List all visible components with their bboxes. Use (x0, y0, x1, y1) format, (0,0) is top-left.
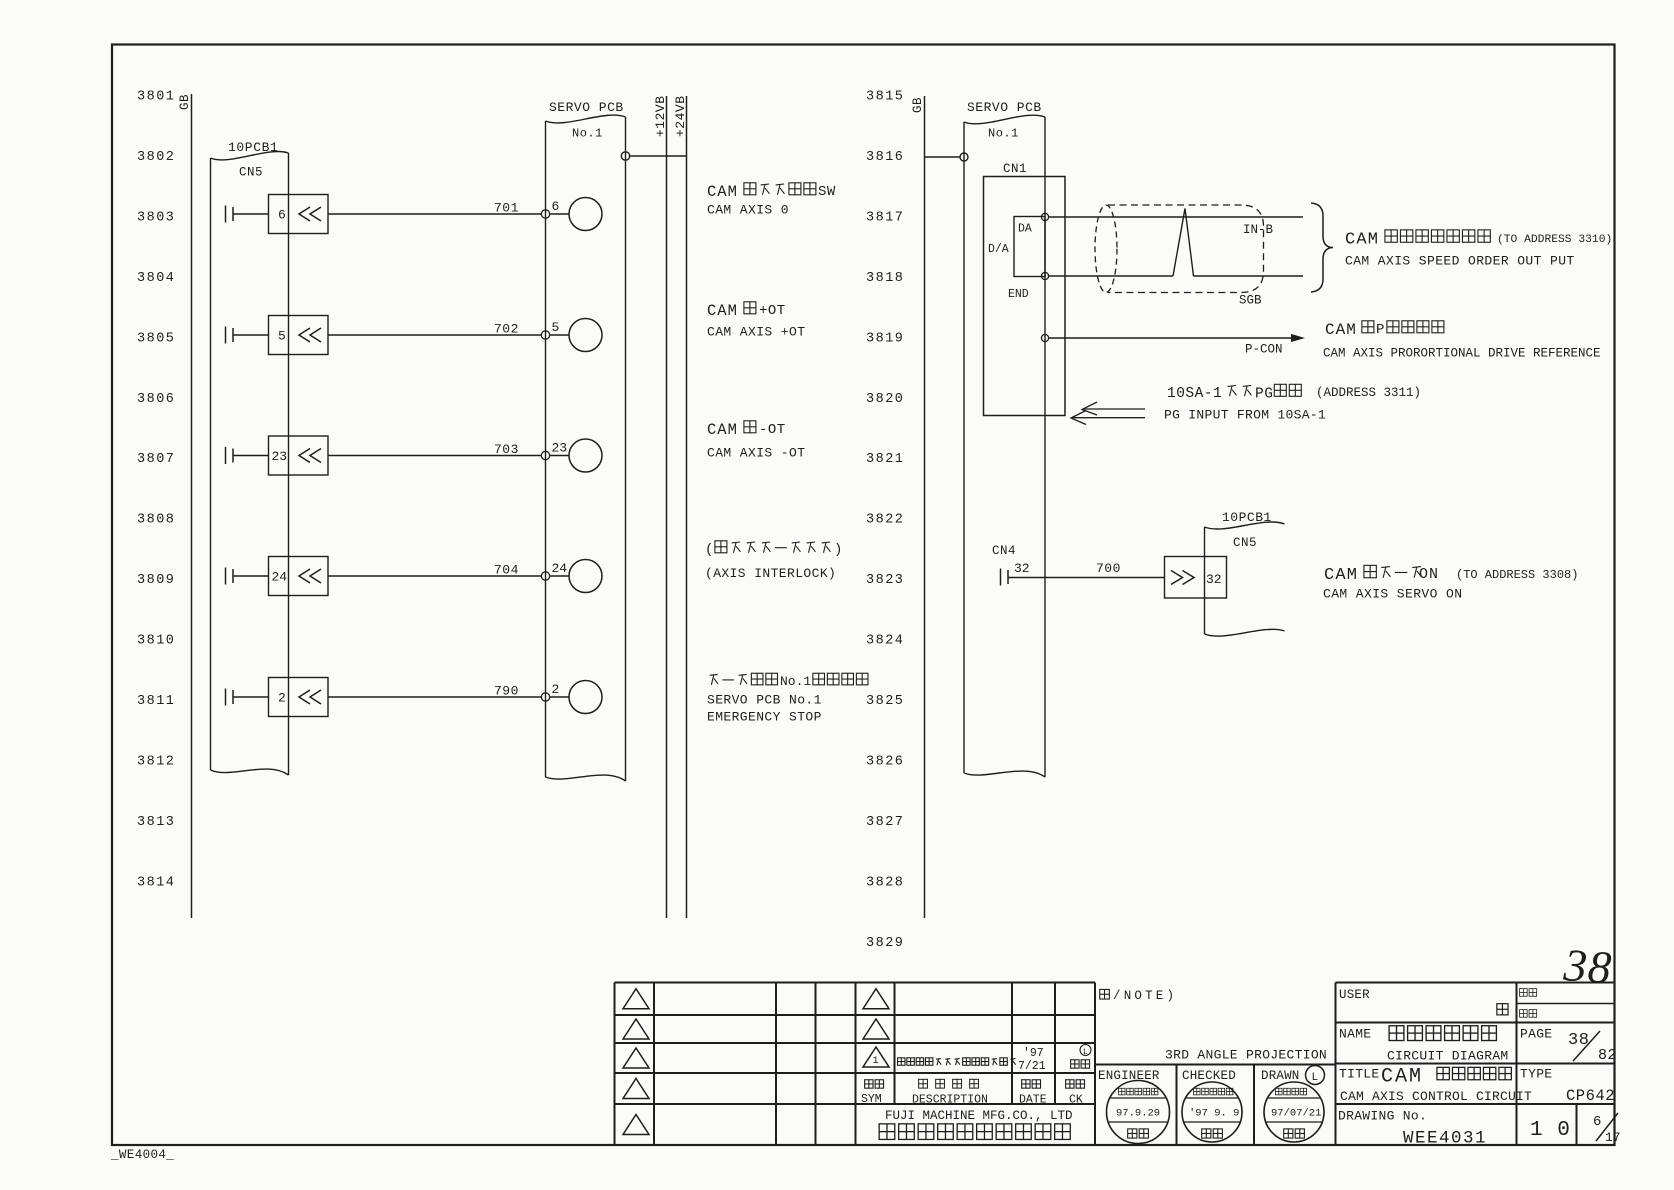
svg-text:3805: 3805 (137, 331, 175, 346)
wire IN-B (speed order +) (1049, 216, 1303, 218)
svg-text:CAM AXIS +OT: CAM AXIS +OT (707, 325, 805, 340)
svg-text:3807: 3807 (137, 452, 175, 467)
svg-text:CN4: CN4 (992, 544, 1016, 558)
svg-text:DA: DA (1018, 223, 1032, 236)
svg-text:3803: 3803 (137, 210, 175, 225)
svg-text:GB: GB (178, 94, 192, 110)
svg-text:L: L (1083, 1048, 1088, 1057)
svg-text:3815: 3815 (866, 90, 904, 105)
company name latin (885, 1109, 1073, 1123)
svg-text:3822: 3822 (866, 513, 904, 528)
wire number label 790 (494, 684, 519, 699)
seiban label (JP) (1520, 1010, 1537, 1018)
revision triangle L4 (623, 1079, 649, 1099)
node: SERVO PCB GB tap (960, 153, 968, 161)
connector CN1 box (984, 177, 1066, 416)
annotation: PG INPUT FROM 10SA-1 (1164, 408, 1326, 423)
annotation: CAM axis -OT (JP) (707, 421, 786, 439)
svg-text:23: 23 (272, 449, 288, 464)
wire P-CON with arrow (1049, 335, 1303, 342)
net label 3803 (137, 210, 175, 225)
net label 3814 (137, 875, 175, 890)
annotation: PG input from 10SA-1 (JP) (1167, 384, 1421, 402)
SERVO PCB label (right) (967, 100, 1042, 115)
wire number label 703 (494, 442, 519, 457)
svg-text:TYPE: TYPE (1520, 1067, 1552, 1082)
svg-text:3804: 3804 (137, 271, 175, 286)
svg-text:-OT: -OT (759, 422, 786, 438)
annotation: CAM AXIS -OT (707, 446, 805, 461)
net label 3805 (137, 331, 175, 346)
svg-text:No.1: No.1 (572, 127, 603, 141)
svg-text:97.9.29: 97.9.29 (1116, 1108, 1160, 1120)
wire 701 (328, 213, 541, 215)
title table gridlines (1336, 983, 1616, 1146)
header DESCRIPTION (912, 1079, 988, 1106)
svg-text:CN5: CN5 (239, 166, 263, 180)
svg-text:704: 704 (494, 563, 519, 578)
net label 3811 (137, 694, 175, 709)
contact pins CN5-23 (226, 447, 234, 464)
CHECKED stamp (1182, 1082, 1242, 1142)
svg-text:NAME: NAME (1339, 1027, 1371, 1042)
wire node to lamp 23 (550, 455, 569, 457)
arrow chevrons (signal into 10PCB1) row 700 (1171, 571, 1194, 585)
net label 3816 (866, 150, 904, 165)
3RD ANGLE PROJECTION label (1165, 1048, 1327, 1063)
svg-text:CP642: CP642 (1566, 1087, 1615, 1105)
annotation: CAM axis servo ON (JP) (1324, 565, 1578, 585)
pin box 23 (10PCB1) (269, 436, 329, 475)
svg-text:3824: 3824 (866, 634, 904, 649)
connector 10PCB1 CN5 column (left) (211, 151, 289, 775)
svg-text:790: 790 (494, 684, 519, 699)
svg-text:'97 9. 9: '97 9. 9 (1189, 1108, 1239, 1120)
svg-text:CAM: CAM (707, 302, 738, 320)
node junction 701 at SERVO PCB (541, 210, 549, 218)
wire node to lamp 6 (550, 213, 569, 215)
svg-text:DRAWN: DRAWN (1261, 1069, 1300, 1083)
net label 3815 (866, 90, 904, 105)
wire 3816 GB to SERVO PCB (925, 156, 961, 158)
svg-text:ON: ON (1419, 566, 1439, 583)
SERVO PCB No.1 label (left) (572, 127, 603, 141)
svg-text:702: 702 (494, 322, 519, 337)
indicator circle pin 24 (569, 560, 602, 593)
svg-text:+OT: +OT (759, 303, 786, 319)
net label 3802 (137, 150, 175, 165)
contact pins CN4-32 (1001, 569, 1009, 586)
revision triangle R1 (863, 989, 889, 1009)
net label 3828 (866, 875, 904, 890)
svg-text:P-CON: P-CON (1245, 343, 1283, 357)
SERVO PCB label (left) (549, 100, 624, 115)
net label 3812 (137, 754, 175, 769)
pin label END (1008, 288, 1029, 301)
ENGINEER stamp (1107, 1081, 1170, 1144)
svg-text:EMERGENCY STOP: EMERGENCY STOP (707, 710, 822, 725)
net label 3823 (866, 573, 904, 588)
handwritten page number 38 (1561, 939, 1613, 993)
wire node to lamp 5 (550, 334, 569, 336)
svg-text:3813: 3813 (137, 815, 175, 830)
pin number 6 label (278, 208, 286, 223)
svg-text:6: 6 (552, 199, 560, 214)
net label 3807 (137, 452, 175, 467)
power rail label +24VB (673, 95, 688, 137)
TITLE: CAM axis control circuit (JP) (1381, 1066, 1511, 1089)
SERVO PCB No.1 column (right) (964, 115, 1045, 777)
ENGINEER label (1098, 1069, 1160, 1083)
CHECKED label (1182, 1069, 1236, 1083)
svg-text:CAM AXIS SPEED ORDER OUT PUT: CAM AXIS SPEED ORDER OUT PUT (1345, 254, 1575, 269)
revision 1 description (JP) (898, 1058, 1016, 1065)
wire 702 (328, 334, 541, 336)
PAGE label (1520, 1027, 1552, 1042)
revision table (left) (615, 983, 856, 1146)
svg-text:1: 1 (873, 1056, 879, 1067)
D/A converter label (988, 243, 1009, 256)
svg-text:6: 6 (1593, 1114, 1601, 1130)
annotation: CAM axis P drive (JP) (1325, 321, 1444, 339)
NAME: CIRCUIT DIAGRAM (1387, 1049, 1509, 1064)
TITLE label (1339, 1067, 1380, 1082)
annotation: CAM AXIS 0 (707, 203, 789, 218)
revision 1 date (1018, 1047, 1046, 1073)
pin number 32 label (10PCB1) (1206, 572, 1222, 587)
pin number 2 label (SERVO PCB) (552, 682, 560, 697)
revision triangle R2 (863, 1019, 889, 1039)
node junction 702 at SERVO PCB (541, 331, 549, 339)
svg-text:CAM AXIS SERVO ON: CAM AXIS SERVO ON (1323, 587, 1462, 602)
signal label P-CON (1245, 343, 1283, 357)
svg-text:3819: 3819 (866, 331, 904, 346)
NAME: circuit diagram (JP) (1389, 1026, 1496, 1041)
sheet number 10 (1530, 1119, 1571, 1142)
svg-text:82: 82 (1598, 1047, 1617, 1064)
svg-text:5: 5 (552, 320, 560, 335)
header CK (1066, 1080, 1085, 1107)
svg-text:CAM: CAM (1345, 231, 1379, 250)
svg-text:SERVO PCB No.1: SERVO PCB No.1 (707, 693, 822, 708)
svg-text:3809: 3809 (137, 573, 175, 588)
connector 10PCB1 label (left) (228, 140, 278, 155)
svg-text:24: 24 (552, 561, 568, 576)
annotation: CAM AXIS SPEED ORDER OUT PUT (1345, 254, 1575, 269)
net label 3829 (866, 936, 904, 951)
net label 3808 (137, 513, 175, 528)
svg-text:32: 32 (1206, 572, 1222, 587)
bunban label (JP) (1520, 989, 1537, 997)
net label 3822 (866, 513, 904, 528)
pin DA (CN1) (1041, 213, 1048, 220)
svg-text:(TO ADDRESS 3310): (TO ADDRESS 3310) (1497, 234, 1612, 246)
pin box 5 (10PCB1) (269, 316, 329, 355)
svg-text:P: P (1376, 322, 1384, 338)
power rail label +12VB (653, 95, 668, 137)
pin number 23 label (SERVO PCB) (552, 441, 568, 456)
pin box 32 (10PCB1 CN5) (1165, 557, 1227, 599)
DRAWN label (1261, 1069, 1300, 1083)
wire number label 700 (1096, 561, 1121, 576)
wire 704 (328, 575, 541, 577)
svg-text:7/21: 7/21 (1018, 1060, 1046, 1073)
svg-text:3RD ANGLE PROJECTION: 3RD ANGLE PROJECTION (1165, 1048, 1327, 1063)
connector 10PCB1 label (right) (1222, 510, 1272, 525)
revision triangle L1 (623, 989, 649, 1009)
svg-text:PG INPUT FROM 10SA-1: PG INPUT FROM 10SA-1 (1164, 408, 1326, 423)
pin number 23 label (272, 449, 288, 464)
svg-text:_WE4004_: _WE4004_ (110, 1148, 174, 1162)
wire CN5-2 to pin box (233, 696, 269, 698)
svg-text:SERVO PCB: SERVO PCB (549, 100, 624, 115)
svg-text:3801: 3801 (137, 90, 175, 105)
shielded cable symbol (dashed) (1095, 205, 1264, 293)
connector CN1 label (1003, 162, 1027, 176)
net label 3825 (866, 694, 904, 709)
svg-text:ENGINEER: ENGINEER (1098, 1069, 1160, 1083)
pin number 5 label (278, 329, 286, 344)
net label 3801 (137, 90, 175, 105)
svg-text:700: 700 (1096, 561, 1121, 576)
PAGE 38/82 (1568, 1031, 1617, 1064)
svg-text:(TO ADDRESS 3308): (TO ADDRESS 3308) (1456, 568, 1578, 582)
indicator circle pin 5 (569, 319, 602, 352)
svg-text:IN-B: IN-B (1243, 223, 1274, 237)
svg-text:CAM: CAM (707, 183, 738, 201)
wire 700 (1008, 577, 1165, 579)
signal label SGB (1239, 294, 1262, 308)
svg-text:6: 6 (278, 208, 286, 223)
pin number 6 label (SERVO PCB) (552, 199, 560, 214)
net label 3826 (866, 754, 904, 769)
svg-text:3811: 3811 (137, 694, 175, 709)
SERVO PCB No.1 label (right) (988, 127, 1019, 141)
pin number 24 label (272, 570, 288, 585)
drawing number WEE4031 (1403, 1129, 1487, 1149)
pin number 5 label (SERVO PCB) (552, 320, 560, 335)
wire SGB with pulse waveform (1049, 209, 1303, 277)
svg-text:CIRCUIT DIAGRAM: CIRCUIT DIAGRAM (1387, 1049, 1509, 1064)
svg-text:3817: 3817 (866, 210, 904, 225)
svg-text:No.1: No.1 (988, 127, 1019, 141)
TITLE: CAM AXIS CONTROL CIRCUIT (1340, 1089, 1532, 1104)
power rail +24VB wire (686, 96, 688, 918)
svg-text:DRAWING No.: DRAWING No. (1338, 1109, 1427, 1124)
TYPE label (1520, 1067, 1552, 1082)
net label 3824 (866, 634, 904, 649)
annotation: axis interlock (JP) (705, 541, 842, 558)
svg-text:DATE: DATE (1019, 1094, 1047, 1107)
svg-text:3814: 3814 (137, 875, 175, 890)
node junction 704 at SERVO PCB (541, 572, 549, 580)
svg-text:CAM: CAM (1324, 566, 1358, 585)
annotation: SERVO PCB No.1 (707, 693, 822, 708)
contact pins CN5-6 (226, 206, 234, 223)
svg-text:FUJI MACHINE MFG.CO., LTD: FUJI MACHINE MFG.CO., LTD (885, 1109, 1073, 1123)
svg-text:SW: SW (818, 184, 836, 200)
svg-text:SGB: SGB (1239, 294, 1262, 308)
svg-text:24: 24 (272, 570, 288, 585)
svg-text:SERVO PCB: SERVO PCB (967, 100, 1042, 115)
wire node to lamp 24 (550, 575, 569, 577)
header SYM (861, 1080, 884, 1106)
wire node to lamp 2 (550, 696, 569, 698)
svg-text:701: 701 (494, 201, 519, 216)
GB bus label (right) (911, 97, 925, 113)
annotation: CAM axis speed order (JP) (1345, 230, 1612, 250)
contact pins CN5-5 (226, 327, 234, 344)
USER dono (JP) (1497, 1004, 1508, 1015)
revision triangle L2 (623, 1019, 649, 1039)
GB bus wire (left) (191, 94, 193, 918)
svg-text:DESCRIPTION: DESCRIPTION (912, 1094, 988, 1107)
svg-text:32: 32 (1014, 561, 1030, 576)
arrow chevrons (signal into 10PCB1) row 701 (299, 207, 321, 221)
annotation: CAM axis zero set SW (JP) (707, 183, 836, 201)
svg-text:(: ( (705, 542, 713, 558)
svg-text:CAM AXIS CONTROL CIRCUIT: CAM AXIS CONTROL CIRCUIT (1340, 1089, 1532, 1104)
indicator circle pin 6 (569, 198, 602, 231)
svg-text:SYM: SYM (861, 1093, 882, 1106)
wire 790 (328, 696, 541, 698)
svg-text:'97: '97 (1023, 1047, 1044, 1060)
svg-text:3825: 3825 (866, 694, 904, 709)
net label 3804 (137, 271, 175, 286)
node junction 790 at SERVO PCB (541, 693, 549, 701)
svg-text:23: 23 (552, 441, 568, 456)
svg-text:CN5: CN5 (1233, 536, 1257, 550)
annotation: CAM AXIS +OT (707, 325, 805, 340)
svg-text:10PCB1: 10PCB1 (228, 140, 278, 155)
net label 3810 (137, 634, 175, 649)
net label 3813 (137, 815, 175, 830)
revision 1 CK name (JP) (1071, 1060, 1090, 1068)
header DATE (1019, 1080, 1047, 1107)
svg-text:GB: GB (911, 97, 925, 113)
annotation: CAM axis +OT (JP) (707, 302, 786, 320)
svg-text:3821: 3821 (866, 452, 904, 467)
svg-text:3829: 3829 (866, 936, 904, 951)
annotation: servo pcb no.1 emergency stop (JP) (710, 673, 868, 689)
svg-text:1 0: 1 0 (1530, 1119, 1571, 1142)
arrow: PG input lower (1071, 411, 1145, 425)
net label 3809 (137, 573, 175, 588)
svg-text:CK: CK (1069, 1094, 1083, 1107)
svg-text:3810: 3810 (137, 634, 175, 649)
signal label IN-B (1243, 223, 1274, 237)
note label (JP) (1100, 989, 1177, 1003)
svg-text:L: L (1312, 1072, 1319, 1084)
svg-text:TITLE: TITLE (1339, 1067, 1380, 1082)
wire CN5-5 to pin box (233, 334, 269, 336)
svg-text:2: 2 (278, 691, 286, 706)
contact pins CN5-2 (226, 689, 234, 706)
net label 3819 (866, 331, 904, 346)
node junction 703 at SERVO PCB (541, 451, 549, 459)
wire number label 701 (494, 201, 519, 216)
svg-text:3828: 3828 (866, 875, 904, 890)
svg-text:D/A: D/A (988, 243, 1009, 256)
arrow: PG input upper (1082, 402, 1145, 415)
svg-text:3816: 3816 (866, 150, 904, 165)
annotation: EMERGENCY STOP (707, 710, 822, 725)
pin box 2 (10PCB1) (269, 678, 329, 717)
net label 3817 (866, 210, 904, 225)
pin number 2 label (278, 691, 286, 706)
svg-text:PAGE: PAGE (1520, 1027, 1552, 1042)
pin number 24 label (SERVO PCB) (552, 561, 568, 576)
arrow chevrons (signal into 10PCB1) row 703 (299, 449, 321, 463)
connector CN5 label (left) (239, 166, 263, 180)
sheet 6/17 (1593, 1113, 1621, 1145)
revision triangle L5 (623, 1115, 649, 1135)
svg-text:): ) (834, 542, 842, 558)
svg-text:17: 17 (1605, 1130, 1621, 1145)
revision 1 CK mark (1080, 1045, 1091, 1058)
wire CN5-24 to pin box (233, 575, 269, 577)
contact pins CN5-24 (226, 568, 234, 585)
wire CN5-6 to pin box (233, 213, 269, 215)
revision triangle R3 rev 1 (863, 1047, 889, 1067)
svg-text:97/07/21: 97/07/21 (1271, 1108, 1321, 1120)
pin END (CN1) (1041, 272, 1048, 279)
NAME label (1339, 1027, 1371, 1042)
svg-text:CHECKED: CHECKED (1182, 1069, 1236, 1083)
net label 3827 (866, 815, 904, 830)
svg-text:3808: 3808 (137, 513, 175, 528)
svg-text:5: 5 (278, 329, 286, 344)
arrow chevrons (signal into 10PCB1) row 702 (299, 328, 321, 342)
connector 10PCB1 CN5 partial column (right) (1205, 522, 1285, 636)
net label 3806 (137, 392, 175, 407)
svg-text:CAM AXIS -OT: CAM AXIS -OT (707, 446, 805, 461)
revision triangle L3 (623, 1048, 649, 1068)
svg-text:USER: USER (1339, 988, 1370, 1002)
revision table (right) (856, 983, 1096, 1146)
svg-text:CAM: CAM (1381, 1066, 1423, 1089)
svg-text:3826: 3826 (866, 754, 904, 769)
GB bus wire (right) (924, 96, 926, 918)
connector CN4 label (992, 544, 1016, 558)
annotation: CAM AXIS PRORORTIONAL DRIVE REFERENCE (1323, 347, 1601, 361)
net label 3820 (866, 392, 904, 407)
svg-text:(ADDRESS 3311): (ADDRESS 3311) (1316, 386, 1421, 400)
pin label DA (1018, 223, 1032, 236)
svg-text:CAM AXIS 0: CAM AXIS 0 (707, 203, 789, 218)
arrow chevrons (signal into 10PCB1) row 790 (299, 690, 321, 704)
svg-text:CAM AXIS PRORORTIONAL DRIVE RE: CAM AXIS PRORORTIONAL DRIVE REFERENCE (1323, 347, 1601, 361)
TYPE CP642 (1566, 1087, 1615, 1105)
svg-text:3806: 3806 (137, 392, 175, 407)
SERVO PCB No.1 column (left) (546, 115, 626, 781)
svg-text:PG: PG (1255, 387, 1273, 403)
net label 3821 (866, 452, 904, 467)
svg-text:(AXIS INTERLOCK): (AXIS INTERLOCK) (705, 566, 836, 581)
annotation: (AXIS INTERLOCK) (705, 566, 836, 581)
DRAWING No. label (1338, 1109, 1427, 1124)
brace: speed order outputs (1311, 203, 1333, 292)
annotation: CAM AXIS SERVO ON (1323, 587, 1462, 602)
power rail +12VB wire (666, 96, 668, 918)
wire 703 (328, 455, 541, 457)
svg-text:No.1: No.1 (780, 674, 811, 689)
D/A converter U1 box (1014, 217, 1045, 277)
company name (JP) (879, 1124, 1070, 1140)
stamp row dividers (1177, 983, 1336, 1146)
svg-text:3823: 3823 (866, 573, 904, 588)
svg-text:3820: 3820 (866, 392, 904, 407)
